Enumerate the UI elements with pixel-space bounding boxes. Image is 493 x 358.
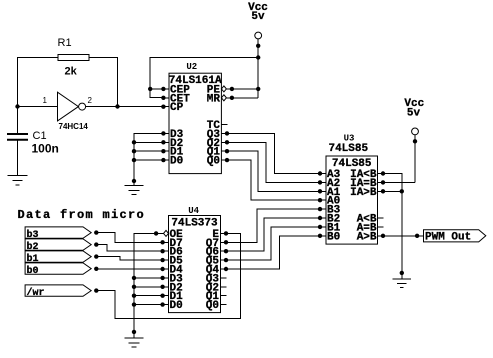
pin D3 <box>161 129 183 141</box>
counter U2 74LS161A <box>169 73 222 173</box>
pin B2 <box>318 214 340 226</box>
svg-text:100n: 100n <box>32 142 59 156</box>
wire inverter output to CP <box>86 106 164 108</box>
svg-text:CP: CP <box>170 102 184 114</box>
pin D4 <box>160 265 183 277</box>
flag b0 <box>25 263 91 277</box>
svg-text:74HC14: 74HC14 <box>59 122 89 131</box>
pin Q4 <box>206 265 228 277</box>
power Vcc 5v above U2 <box>248 2 268 98</box>
node junction at PWM Out <box>415 234 419 238</box>
flag b2 <box>25 239 91 253</box>
wire A>B to PWM Out <box>383 235 424 237</box>
svg-text:5v: 5v <box>251 11 265 23</box>
pin D0 <box>160 300 182 312</box>
ground below U4 <box>125 332 144 347</box>
flag b1 <box>25 251 91 265</box>
svg-text:D0: D0 <box>170 156 183 168</box>
wire OE to ground rail <box>134 233 156 332</box>
node junctions on U2 D ground rail <box>132 140 136 183</box>
svg-text:74LS85: 74LS85 <box>328 143 368 155</box>
pin D6 <box>160 247 182 259</box>
power Vcc 5v right <box>404 98 424 183</box>
svg-text:B0: B0 <box>327 231 340 243</box>
label U4 <box>188 206 199 216</box>
pin Q1 stub <box>206 291 227 303</box>
pin D3 <box>160 273 183 285</box>
wire CEP CET tie to Vcc rail <box>150 58 258 98</box>
wire IA=B to Vcc <box>383 181 415 183</box>
pin D2 <box>160 282 182 294</box>
pin CP <box>161 102 183 114</box>
svg-text:PWM Out: PWM Out <box>425 231 471 243</box>
svg-text:/wr: /wr <box>27 287 45 299</box>
pin B0 <box>318 231 340 243</box>
wire b1 to D5 <box>94 254 163 260</box>
svg-text:2: 2 <box>88 96 93 105</box>
svg-text:U3: U3 <box>344 134 355 144</box>
pin A2 <box>318 178 340 190</box>
wire CEP branch <box>150 88 163 90</box>
pin Q0 stub <box>206 300 227 312</box>
pin Q7 <box>206 238 228 250</box>
node junction at inverter input <box>15 104 19 108</box>
pin D1 <box>160 291 183 303</box>
node junction ground rail <box>400 271 404 275</box>
pin MR with bubble <box>207 93 234 105</box>
wire D0 branch to ground rail <box>134 304 163 306</box>
pin number 2 <box>88 96 93 105</box>
comparator U3 74LS85 <box>326 156 378 244</box>
node junction IA>B tie <box>400 189 404 193</box>
label R1 <box>58 37 72 49</box>
pin A>B <box>357 231 386 243</box>
pin D5 <box>160 256 183 268</box>
resistor R1 <box>58 55 89 61</box>
pin E <box>212 229 228 241</box>
svg-text:74LS373: 74LS373 <box>171 217 218 229</box>
wire Q6 to B2 <box>226 218 320 251</box>
svg-text:R1: R1 <box>58 37 72 49</box>
wire D2 branch <box>134 141 163 143</box>
svg-text:2k: 2k <box>65 66 78 78</box>
svg-text:IA>B: IA>B <box>350 187 377 199</box>
pin Q6 <box>206 247 228 259</box>
pin Q5 <box>206 256 228 268</box>
pin D7 <box>160 238 182 250</box>
pin D2 <box>161 138 183 150</box>
pin A3 <box>318 169 341 181</box>
ground below U2 <box>125 181 144 195</box>
wire top feedback from C1 up and across R1 <box>18 58 118 135</box>
pin Q3 stub <box>206 273 227 285</box>
svg-text:C1: C1 <box>33 130 47 142</box>
wire IA>B branch <box>383 190 402 192</box>
svg-text:b0: b0 <box>27 265 39 277</box>
pin A<B stub <box>357 214 384 226</box>
wire Q2 to A2 <box>227 142 320 182</box>
pin A0 <box>318 196 340 208</box>
pin B1 <box>318 222 341 234</box>
wire b3 to D7 <box>94 230 163 242</box>
svg-text:A>B: A>B <box>357 231 377 243</box>
svg-text:5v: 5v <box>407 107 421 119</box>
wire Q1 to A1 <box>227 151 320 191</box>
wire b2 to D6 <box>94 242 163 251</box>
wire Q5 to B1 <box>226 227 320 260</box>
pin CEP <box>161 84 190 96</box>
pin TC stub <box>207 120 228 132</box>
flag /wr <box>25 285 91 299</box>
label U3 <box>344 134 355 144</box>
wire D2 branch to ground rail <box>134 286 163 288</box>
capacitor C1 <box>7 134 28 176</box>
wire Q3 to A3 <box>227 133 320 173</box>
svg-text:Q0: Q0 <box>207 156 220 168</box>
wire Q0 to A0 <box>227 160 320 200</box>
pin CET <box>161 93 190 105</box>
label 100n <box>32 142 59 156</box>
ground below U3 <box>393 273 411 288</box>
node junctions on U4 ground rail <box>132 276 136 334</box>
pin IA<B <box>350 169 385 181</box>
wire Q4 to B0 <box>226 236 320 269</box>
pin IA>B <box>350 187 385 199</box>
pin Q1 <box>207 147 229 159</box>
pin D0 <box>161 156 183 168</box>
svg-text:D0: D0 <box>170 300 183 312</box>
pin Q3 <box>207 129 229 141</box>
pin Q0 <box>207 156 229 168</box>
inverter U1 74HC14 <box>58 92 86 121</box>
svg-text:Data from micro: Data from micro <box>18 208 146 222</box>
pin Q2 <box>207 138 229 150</box>
latch U4 74LS373 <box>169 216 221 313</box>
label 74LS85 above box <box>328 143 368 155</box>
pin A=B stub <box>357 222 384 234</box>
pin A1 <box>318 187 341 199</box>
flag b3 <box>25 227 91 241</box>
svg-text:U2: U2 <box>186 62 197 72</box>
label 2k <box>65 66 78 78</box>
svg-text:MR: MR <box>207 93 221 105</box>
pin number 1 <box>43 96 48 105</box>
label U2 <box>186 62 197 72</box>
node junction feedback to inverter output <box>115 104 119 108</box>
wire b0 to D4 <box>94 267 163 271</box>
wire /wr to E <box>94 233 240 318</box>
wire MR to Vcc rail <box>232 97 258 99</box>
svg-text:74LS85: 74LS85 <box>332 158 372 170</box>
label C1 <box>33 130 47 142</box>
wire PE to Vcc rail <box>232 88 258 90</box>
label 74HC14 <box>59 122 89 131</box>
pin Q2 stub <box>206 282 227 294</box>
wire D0 branch <box>134 159 163 161</box>
pin D1 <box>161 147 183 159</box>
pin PE with bubble <box>207 84 234 96</box>
svg-text:U4: U4 <box>188 206 199 216</box>
wire IA<B and IA>B to ground rail <box>383 174 402 273</box>
pin OE with bubble <box>154 229 183 241</box>
ground below C1 <box>8 176 28 186</box>
wire D3 branch to ground rail <box>134 277 163 279</box>
label Data from micro <box>18 208 146 222</box>
wire Q7 to B3 <box>226 209 320 242</box>
svg-text:1: 1 <box>43 96 48 105</box>
svg-text:Q0: Q0 <box>206 300 219 312</box>
pin IA=B <box>350 178 385 190</box>
flag PWM Out <box>424 230 486 244</box>
wire inverter input <box>18 106 58 108</box>
wire D1 branch <box>134 150 163 152</box>
node junction CEP tie <box>148 87 152 91</box>
pin B3 <box>318 205 341 217</box>
wire U2 D inputs to ground rail <box>134 133 163 181</box>
wire D1 branch to ground rail <box>134 295 163 297</box>
